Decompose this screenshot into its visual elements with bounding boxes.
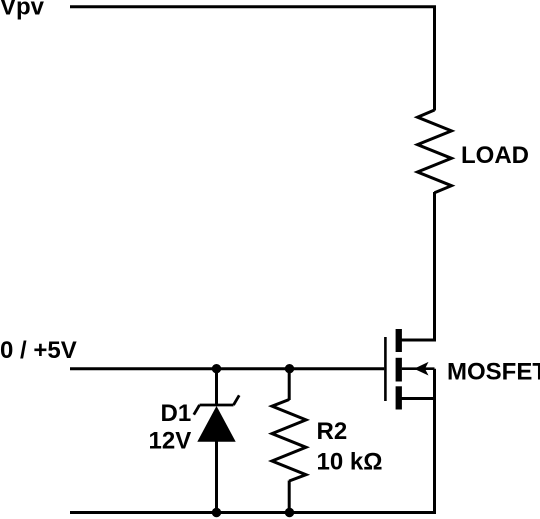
zener diode D1 [194,369,239,513]
junction node gate/R2 [285,364,294,373]
R2 zigzag [272,400,306,482]
zener tail right [234,395,240,405]
svg-text:MOSFET: MOSFET [447,359,540,386]
wire node to R2 [288,369,291,400]
svg-text:LOAD: LOAD [461,142,529,169]
junction node bottom/R2 [285,508,294,517]
source lead wire [398,397,437,400]
body lead wire [402,367,435,370]
svg-text:10 kΩ: 10 kΩ [317,448,383,475]
svg-text:12V: 12V [149,428,192,455]
cathode bar [200,404,234,407]
wire source rail [433,369,436,513]
channel segment drain side [396,329,402,352]
wire anode to bottom [215,441,218,513]
wire LOAD to MOSFET drain [398,192,435,340]
svg-text:R2: R2 [317,418,348,445]
wire R2 to bottom [288,481,291,514]
svg-text:0 / +5V: 0 / +5V [0,337,77,364]
junction node gate/D1 [212,364,221,373]
wire node to cathode [215,369,218,405]
resistor R2 [272,369,306,513]
wire gate rail [70,367,384,370]
channel segment body [396,358,402,382]
anode triangle [197,406,235,442]
junction node bottom/D1 [212,508,221,517]
resistor LOAD [418,110,452,193]
svg-text:D1: D1 [161,400,192,427]
wire top rail Vpv [70,7,435,111]
gate bar [384,337,387,401]
svg-text:Vpv: Vpv [0,0,45,21]
body arrow [414,362,429,376]
channel segment source side [396,386,402,409]
transistor Q1 MOSFET [385,329,436,410]
zener tail left [194,405,200,415]
wire bottom rail [70,511,436,514]
